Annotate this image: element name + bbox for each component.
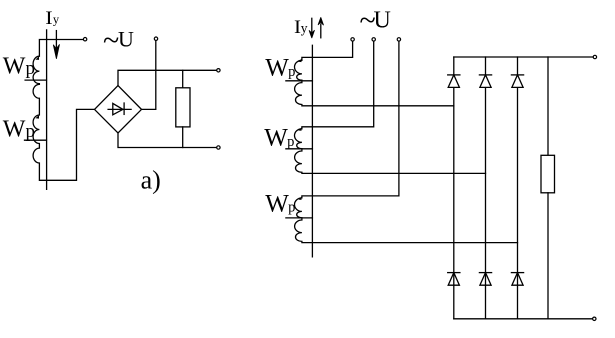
winding start tick Wp3 (right) <box>298 197 301 200</box>
terminal: left output minus <box>217 146 220 149</box>
terminal: ~U right phase 2 <box>372 38 375 41</box>
winding start tick Wp2 (left) <box>35 115 39 119</box>
winding Wp3 with phase wires (right) <box>294 41 517 243</box>
winding start tick Wp1 (left) <box>35 56 39 60</box>
wire: supply terminal 2 down to bridge right vertex (left) <box>142 40 156 109</box>
diode VD3 top column 3 <box>511 75 523 88</box>
svg-text:Wp: Wp <box>264 125 294 152</box>
winding Wp1+Wp2 series path with input wire (left) <box>33 40 94 181</box>
diode VD4 bottom column 1 <box>448 273 460 286</box>
terminal: ~U left input 2 <box>154 37 157 40</box>
terminal: ~U right phase 3 <box>397 38 400 41</box>
bridge diode symbol <box>108 103 131 115</box>
svg-text:U: U <box>374 8 391 34</box>
top rail (right) <box>454 56 593 58</box>
svg-text:~: ~ <box>103 24 119 57</box>
terminal: ~U left input 1 <box>83 38 86 41</box>
svg-text:Wp: Wp <box>3 116 35 142</box>
winding start tick Wp2 (right) <box>298 128 301 131</box>
current arrow Iy (left) <box>53 31 59 59</box>
core line of Wp1 (right) <box>286 80 313 82</box>
core line of Wp2 (left) <box>25 139 47 141</box>
diode VD6 bottom column 3 <box>511 273 523 286</box>
svg-text:a): a) <box>141 166 161 195</box>
diode bridge VD (left) <box>95 86 142 134</box>
winding Wp1 with phase wires (right) <box>295 41 454 106</box>
terminal: left output plus <box>217 69 220 72</box>
diode VD2 top column 2 <box>479 75 491 88</box>
core line of Wp2 (right) <box>286 148 313 150</box>
current arrow Iy down (right) <box>309 18 314 38</box>
svg-text:Wp: Wp <box>3 54 35 80</box>
terminal: right output minus <box>593 317 596 320</box>
svg-text:y: y <box>53 13 60 27</box>
bridge column 1 (right) <box>453 57 455 319</box>
resistor R (right load) <box>541 57 555 319</box>
svg-text:Wp: Wp <box>265 190 295 217</box>
terminal: right output plus <box>593 55 596 58</box>
svg-text:Wp: Wp <box>265 55 295 82</box>
terminal: ~U right phase 1 <box>351 38 354 41</box>
core line of Wp3 (right) <box>286 217 313 219</box>
wire: bridge top vertex to output plus rail (left) <box>118 70 217 85</box>
core line of Wp1 (left) <box>25 79 46 81</box>
svg-text:y: y <box>301 20 308 35</box>
bridge column 2 (right) <box>485 57 487 319</box>
diode VD5 bottom column 2 <box>479 273 491 286</box>
winding Wp2 with phase wires (right) <box>294 41 485 174</box>
current arrow Iy up (right) <box>318 18 323 38</box>
diode VD1 top column 1 <box>448 75 460 88</box>
wire: bridge bottom vertex to output minus rail (left) <box>118 133 217 148</box>
svg-text:I: I <box>45 8 52 29</box>
conductor (measured-current busbar, left circuit) <box>46 30 48 189</box>
conductor (measured-current busbar, right circuit) <box>311 45 313 256</box>
winding start tick Wp1 (right) <box>298 59 301 62</box>
bottom rail (right) <box>454 318 593 320</box>
resistor R (left load) <box>176 70 190 147</box>
svg-text:U: U <box>118 27 134 52</box>
bridge column 3 (right) <box>517 57 519 319</box>
